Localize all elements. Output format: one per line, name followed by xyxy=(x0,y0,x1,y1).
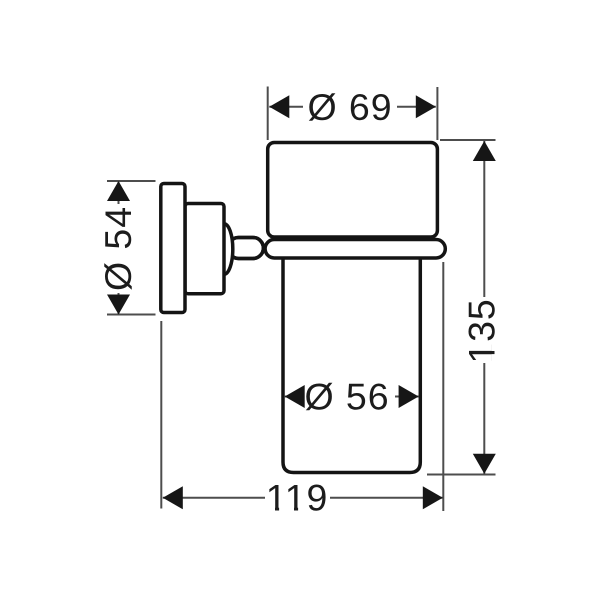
svg-text:Ø 56: Ø 56 xyxy=(305,376,390,418)
svg-text:135: 135 xyxy=(461,298,503,363)
svg-text:119: 119 xyxy=(266,476,328,518)
svg-text:Ø 69: Ø 69 xyxy=(308,86,393,128)
svg-text:Ø 54: Ø 54 xyxy=(97,206,139,291)
